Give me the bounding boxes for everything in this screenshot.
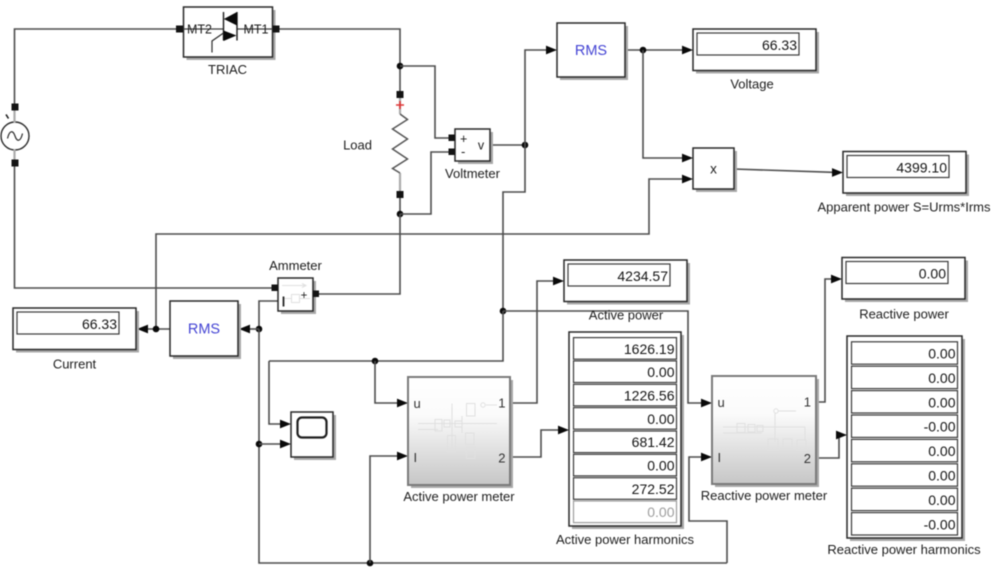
RMS block U2 (voltage) (557, 23, 628, 80)
wire RMS1 output to Voltage display (625, 49, 683, 51)
svg-text:-: - (461, 144, 465, 159)
node load-bottom junction (397, 211, 404, 218)
svg-text:v: v (478, 139, 485, 153)
RMS block U3 (current, mirrored) (170, 301, 241, 359)
display Active power (564, 260, 690, 323)
display Apparent power (817, 152, 991, 215)
subsystem Reactive power meter (701, 376, 828, 503)
svg-text:2: 2 (804, 451, 811, 466)
wire active meter output 2 to harmonics display (510, 430, 559, 457)
wire RMS2 output to Current display (148, 328, 170, 330)
wire node F to active meter I input (370, 456, 398, 563)
wire load bottom to junction (399, 198, 401, 214)
wire load bottom to ammeter right port (319, 214, 400, 294)
svg-text:272.52: 272.52 (632, 481, 675, 497)
node C junction on rail (372, 358, 379, 365)
wire product output to Apparent power display (734, 169, 833, 172)
node D current junction (256, 326, 263, 333)
svg-text:MT2: MT2 (187, 23, 212, 37)
wire ammeter i output to node D (259, 301, 278, 329)
wire voltmeter junction up to RMS1 input (525, 50, 547, 145)
svg-text:1226.56: 1226.56 (624, 388, 675, 404)
svg-text:0.00: 0.00 (928, 394, 955, 410)
svg-text:0.00: 0.00 (928, 443, 955, 459)
wire node B left rail (269, 311, 503, 361)
svg-text:0.00: 0.00 (647, 364, 674, 380)
node voltmeter-out junction (522, 142, 529, 149)
svg-text:Voltage: Voltage (730, 77, 773, 92)
svg-text:Apparent power S=Urms*Irms: Apparent power S=Urms*Irms (817, 200, 991, 215)
display Reactive power (842, 258, 968, 322)
svg-text:Active power: Active power (589, 308, 664, 323)
wire source top to TRIAC MT2 (15, 29, 178, 124)
svg-text:-0.00: -0.00 (924, 419, 956, 435)
node B voltage-tap junction (500, 308, 507, 315)
svg-text:4399.10: 4399.10 (896, 159, 947, 175)
TRIAC T1 (176, 7, 280, 77)
wire node H to product input 1 (643, 50, 683, 158)
svg-text:2: 2 (498, 451, 505, 466)
svg-text:Current: Current (53, 357, 97, 372)
wire current rms to product input 2 (156, 179, 683, 329)
display Voltage (693, 29, 819, 92)
svg-text:-0.00: -0.00 (924, 516, 956, 532)
wire junction to voltmeter plus (400, 66, 449, 138)
load resistor R1 (343, 91, 407, 198)
svg-text:Ammeter: Ammeter (269, 258, 322, 273)
wire rail to scope input 1 (269, 361, 281, 424)
node H RMS1-out junction (640, 47, 647, 54)
svg-text:u: u (414, 396, 421, 411)
svg-text:66.33: 66.33 (762, 37, 797, 53)
wire node D to RMS2 input (250, 328, 259, 330)
svg-text:0.00: 0.00 (928, 346, 955, 362)
wire voltmeter junction down to node B (503, 145, 525, 311)
svg-text:Reactive power: Reactive power (859, 307, 949, 322)
svg-text:Reactive power meter: Reactive power meter (701, 488, 828, 503)
wire bottom rail to reactive meter I input (689, 457, 727, 563)
wire node B to reactive meter u input (503, 311, 702, 403)
voltmeter U1 (445, 129, 501, 181)
svg-text:0.00: 0.00 (928, 492, 955, 508)
svg-text:TRIAC: TRIAC (208, 62, 247, 77)
svg-text:x: x (710, 162, 717, 177)
svg-text:0.00: 0.00 (647, 504, 674, 520)
svg-text:0.00: 0.00 (647, 411, 674, 427)
display Current (13, 308, 139, 372)
node E junction scope input2 (256, 441, 263, 448)
svg-text:0.00: 0.00 (928, 468, 955, 484)
svg-text:Active power harmonics: Active power harmonics (556, 532, 694, 547)
svg-text:1: 1 (498, 396, 505, 411)
wire node C to active meter u input (375, 361, 398, 403)
svg-text:I: I (414, 450, 418, 465)
wire voltmeter output (490, 144, 525, 146)
wire active meter output 1 to Active power display (510, 281, 554, 403)
svg-text:681.42: 681.42 (632, 434, 675, 450)
svg-text:1: 1 (804, 395, 811, 410)
svg-text:Load: Load (343, 138, 372, 153)
wire junction to voltmeter minus (400, 152, 449, 214)
svg-text:66.33: 66.33 (82, 316, 117, 332)
svg-text:4234.57: 4234.57 (617, 268, 668, 284)
svg-text:0.00: 0.00 (647, 458, 674, 474)
svg-text:1626.19: 1626.19 (624, 341, 675, 357)
wire node D down left rail (259, 329, 727, 563)
wire reactive meter output 2 to harmonics display (816, 435, 839, 458)
ammeter A1 (269, 258, 322, 314)
node F junction on bottom rail (367, 560, 374, 567)
wire reactive meter output 1 to Reactive power display (816, 279, 832, 402)
node G junction on rms2 output (153, 326, 160, 333)
wire node E to scope input 2 (259, 443, 281, 445)
svg-text:RMS: RMS (575, 43, 607, 59)
svg-text:+: + (301, 290, 308, 302)
svg-text:RMS: RMS (188, 322, 220, 338)
product block X1 (693, 148, 737, 192)
wire ammeter left port to source bottom (15, 148, 273, 288)
display Reactive power harmonics (827, 336, 981, 557)
svg-text:Reactive power harmonics: Reactive power harmonics (827, 542, 981, 557)
wire TRIAC MT1 to load top (274, 29, 400, 91)
display Active power harmonics (556, 332, 694, 547)
svg-text:Active power meter: Active power meter (403, 489, 515, 504)
subsystem Active power meter (403, 377, 515, 504)
svg-text:MT1: MT1 (244, 23, 269, 37)
scope (291, 412, 336, 460)
svg-text:0.00: 0.00 (919, 265, 946, 281)
AC voltage source (1, 104, 29, 167)
svg-text:I: I (718, 450, 722, 465)
svg-text:u: u (718, 395, 725, 410)
node load-top junction (397, 63, 404, 70)
svg-text:0.00: 0.00 (928, 370, 955, 386)
svg-text:Voltmeter: Voltmeter (445, 166, 501, 181)
